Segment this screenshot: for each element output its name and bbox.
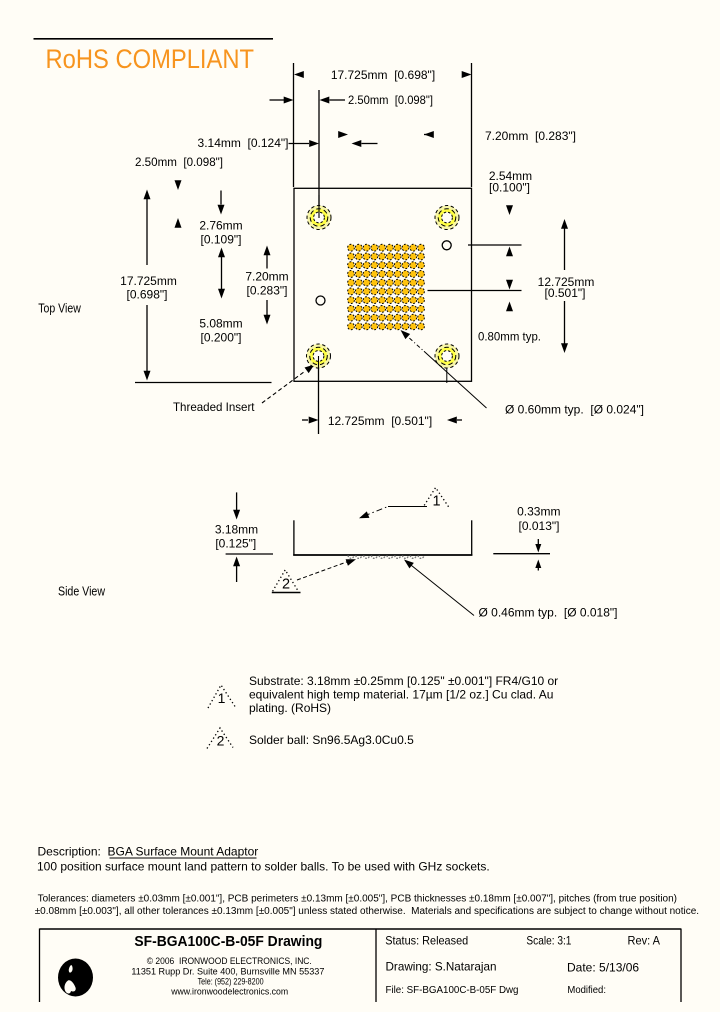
svg-text:[0.109"]: [0.109"] <box>201 233 242 247</box>
svg-text:12.725mm [0.501"]: 12.725mm [0.501"] <box>328 414 432 428</box>
svg-text:www.ironwoodelectronics.com: www.ironwoodelectronics.com <box>170 987 288 997</box>
svg-text:Tele: (952) 229-8200: Tele: (952) 229-8200 <box>198 977 264 987</box>
svg-text:Ø 0.46mm typ. [Ø 0.018"]: Ø 0.46mm typ. [Ø 0.018"] <box>479 606 618 620</box>
svg-text:SF-BGA100C-B-05F Drawing: SF-BGA100C-B-05F Drawing <box>134 934 322 950</box>
svg-text:1: 1 <box>218 690 226 706</box>
svg-text:[0.200"]: [0.200"] <box>201 331 242 345</box>
svg-text:Drawing: S.Natarajan: Drawing: S.Natarajan <box>386 960 497 974</box>
svg-text:[0.698"]: [0.698"] <box>127 288 168 302</box>
svg-text:2: 2 <box>282 577 290 593</box>
svg-text:2.76mm: 2.76mm <box>199 219 242 233</box>
svg-text:[0.283"]: [0.283"] <box>247 284 288 298</box>
svg-text:7.20mm: 7.20mm <box>245 270 288 284</box>
svg-text:© 2006 IRONWOOD ELECTRONICS,: © 2006 IRONWOOD ELECTRONICS, INC. <box>147 956 312 966</box>
svg-text:[0.125"]: [0.125"] <box>215 537 256 551</box>
svg-text:2.50mm [0.098"]: 2.50mm [0.098"] <box>348 93 433 107</box>
svg-text:3.18mm: 3.18mm <box>215 523 258 537</box>
svg-text:7.20mm [0.283"]: 7.20mm [0.283"] <box>485 129 576 143</box>
svg-text:1: 1 <box>432 494 440 510</box>
svg-text:2.50mm [0.098"]: 2.50mm [0.098"] <box>135 155 223 169</box>
svg-text:0.80mm typ.: 0.80mm typ. <box>478 330 541 344</box>
svg-text:Ø 0.60mm typ. [Ø 0.024"]: Ø 0.60mm typ. [Ø 0.024"] <box>505 403 644 417</box>
svg-text:Modified:: Modified: <box>567 985 606 996</box>
svg-text:equivalent high temp material.: equivalent high temp material. 17µm [1/2… <box>249 688 553 702</box>
svg-text:[0.013"]: [0.013"] <box>519 519 560 533</box>
svg-text:File: SF-BGA100C-B-05F Dwg: File: SF-BGA100C-B-05F Dwg <box>386 985 519 996</box>
svg-text:Substrate: 3.18mm ±0.25mm [0.1: Substrate: 3.18mm ±0.25mm [0.125" ±0.001… <box>249 674 558 688</box>
svg-text:[0.501"]: [0.501"] <box>545 286 586 300</box>
svg-text:Date: 5/13/06: Date: 5/13/06 <box>567 961 639 975</box>
svg-text:plating. (RoHS): plating. (RoHS) <box>249 701 331 715</box>
svg-text:Tolerances: diameters ±0.03mm: Tolerances: diameters ±0.03mm [±0.001"],… <box>38 894 677 905</box>
svg-text:100 position surface mount lan: 100 position surface mount land pattern … <box>37 860 490 874</box>
svg-text:17.725mm [0.698"]: 17.725mm [0.698"] <box>331 68 435 82</box>
svg-text:Top View: Top View <box>38 301 81 316</box>
svg-text:0.33mm: 0.33mm <box>517 505 560 519</box>
svg-text:11351 Rupp Dr. Suite 400, Burn: 11351 Rupp Dr. Suite 400, Burnsville MN … <box>131 967 324 977</box>
svg-text:Status: Released: Status: Released <box>385 934 468 948</box>
svg-text:5.08mm: 5.08mm <box>199 317 242 331</box>
svg-text:±0.08mm [±0.003"], all other t: ±0.08mm [±0.003"], all other tolerances … <box>35 906 699 917</box>
svg-text:Threaded Insert: Threaded Insert <box>173 400 255 414</box>
svg-text:2: 2 <box>217 733 225 749</box>
svg-text:Rev: A: Rev: A <box>628 934 661 948</box>
svg-text:Solder ball: Sn96.5Ag3.0Cu0.5: Solder ball: Sn96.5Ag3.0Cu0.5 <box>249 733 414 747</box>
svg-text:Side View: Side View <box>58 584 105 599</box>
svg-text:Scale: 3:1: Scale: 3:1 <box>526 934 571 948</box>
svg-text:[0.100"]: [0.100"] <box>489 181 530 195</box>
svg-text:17.725mm: 17.725mm <box>120 274 177 288</box>
svg-text:3.14mm [0.124"]: 3.14mm [0.124"] <box>198 136 289 150</box>
svg-text:RoHS COMPLIANT: RoHS COMPLIANT <box>46 44 255 74</box>
svg-text:Description: BGA Surface Moun: Description: BGA Surface Mount Adaptor <box>38 845 259 859</box>
